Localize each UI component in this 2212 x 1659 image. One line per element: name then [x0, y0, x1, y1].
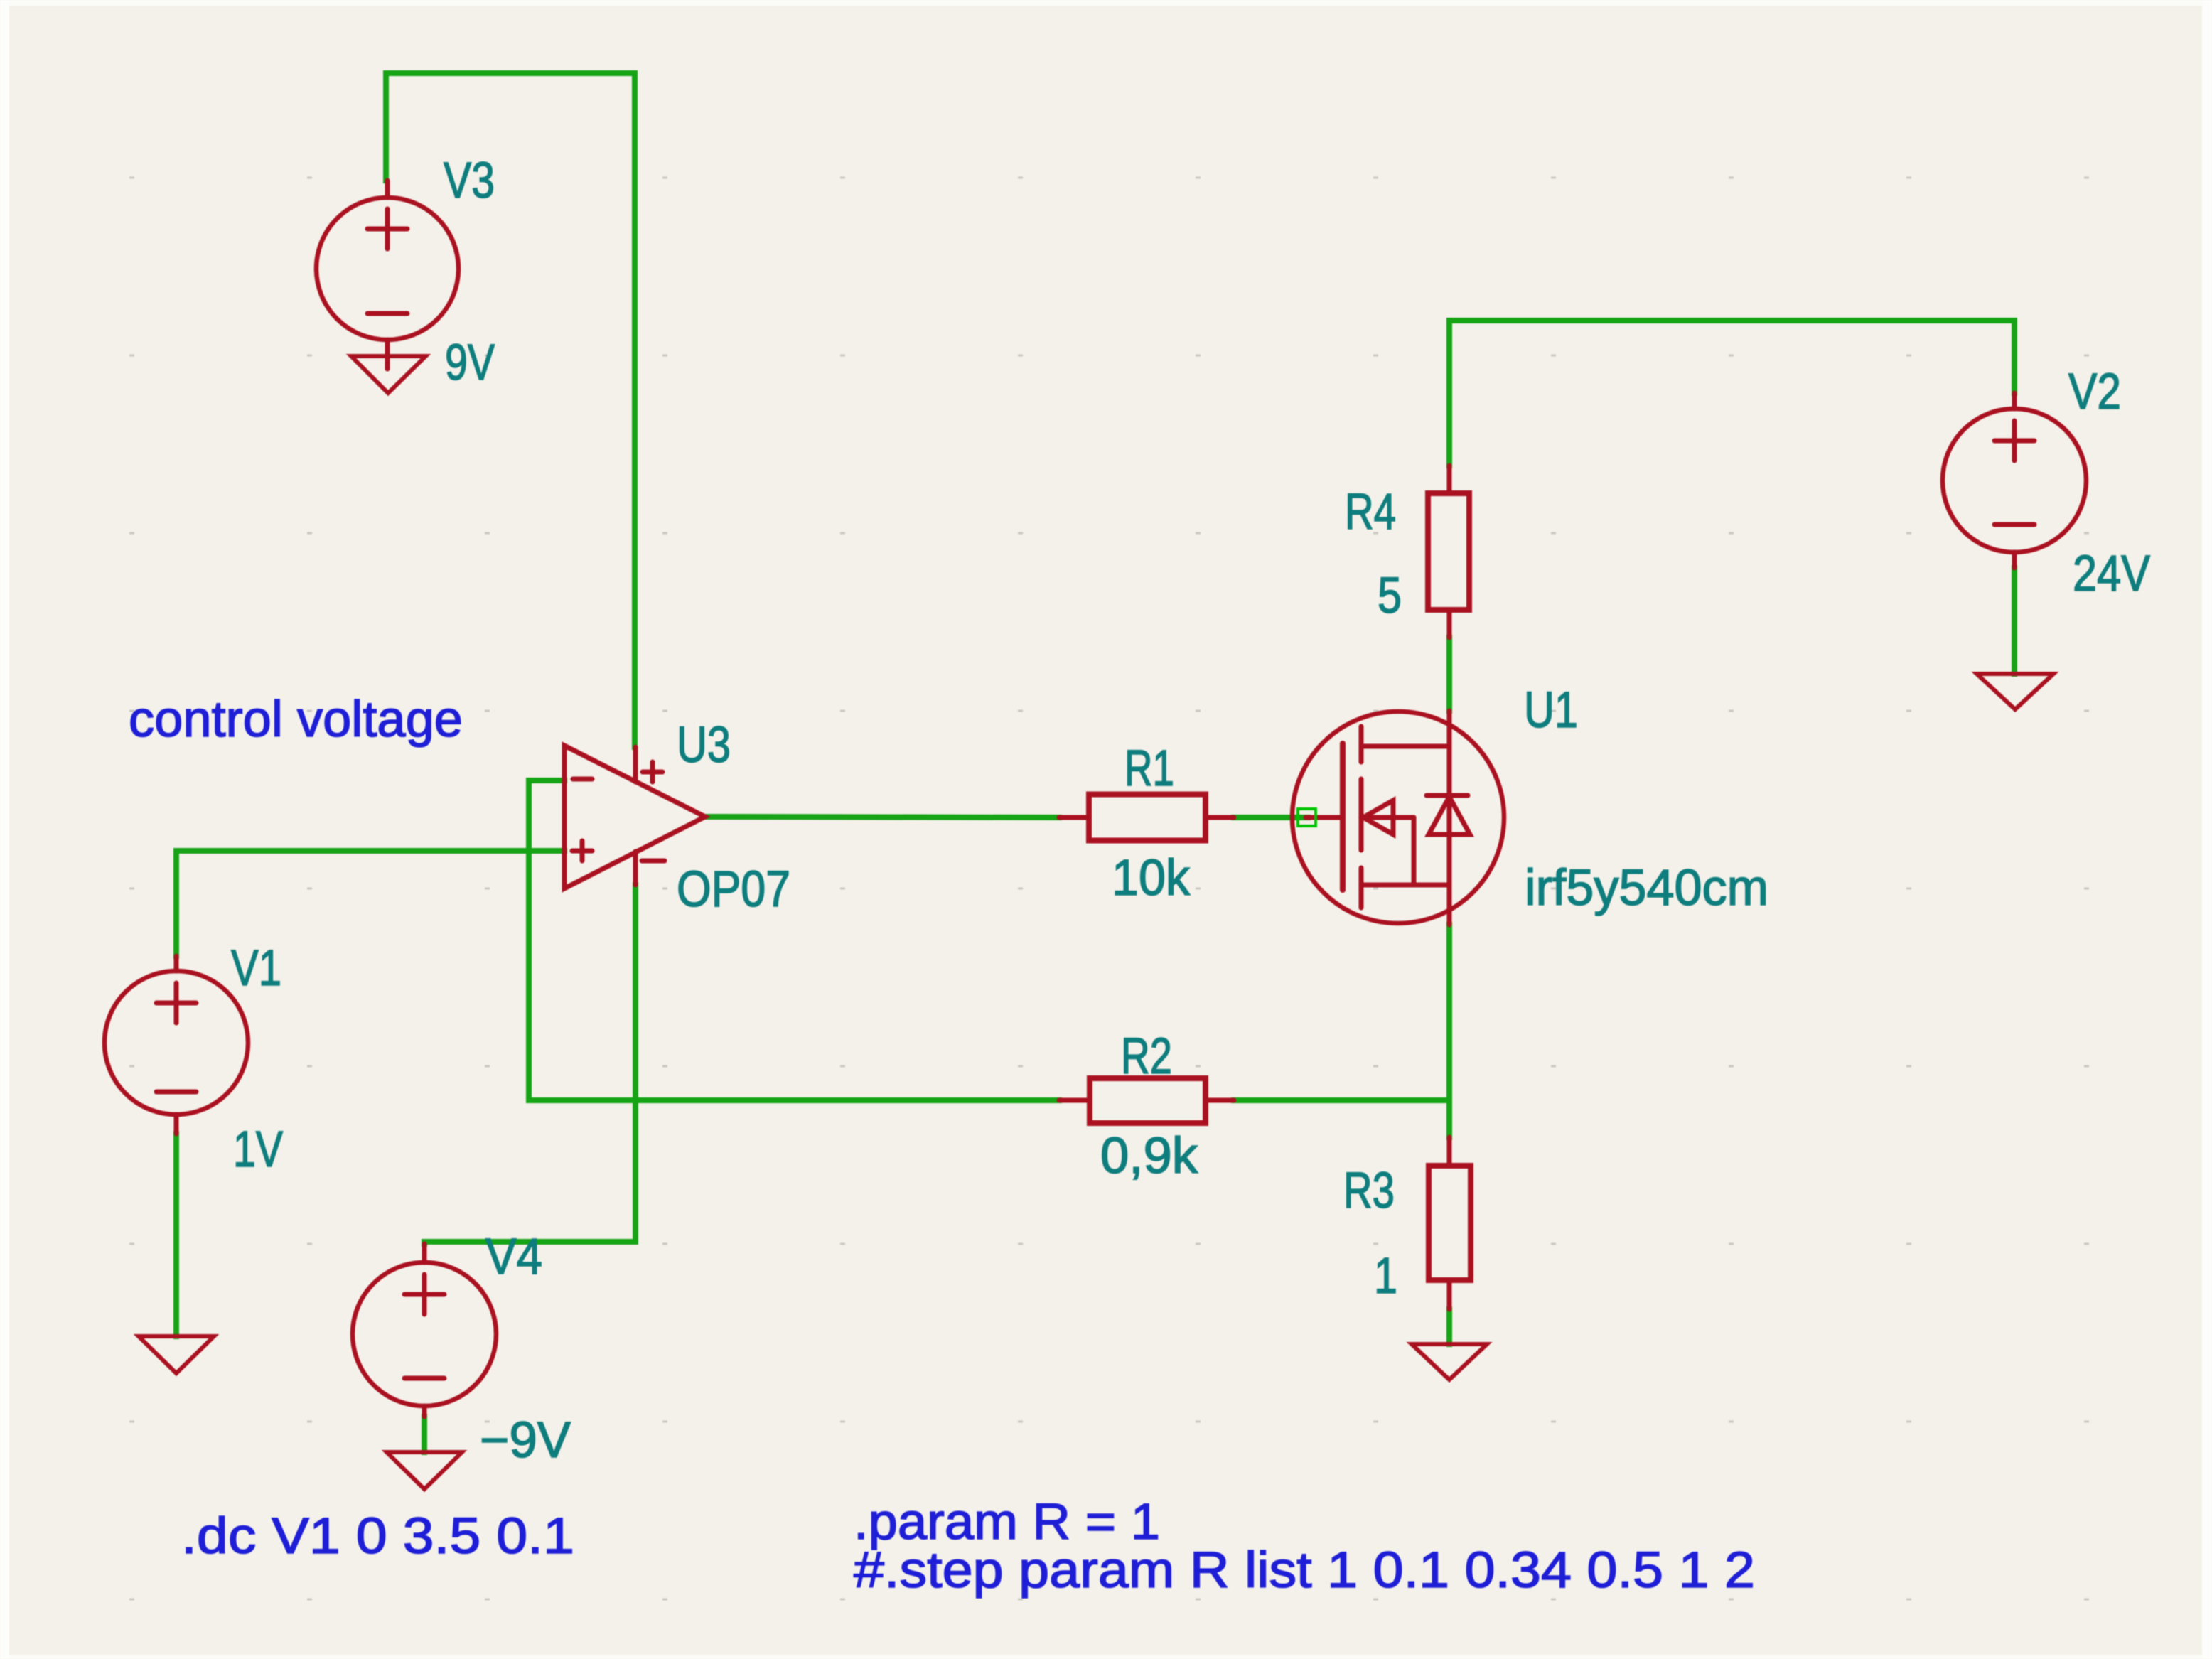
wire V1 bottom to ground	[173, 1134, 179, 1336]
svg-text:V4: V4	[485, 1229, 542, 1285]
resistor R2	[1059, 1078, 1234, 1123]
wire R4 bottom to drain	[1446, 638, 1452, 711]
voltage source V1	[104, 956, 248, 1134]
svg-text:R4: R4	[1345, 484, 1396, 540]
wire feedback to R2 left	[529, 1097, 1059, 1103]
pin end square	[1298, 809, 1316, 826]
ground V2	[1977, 674, 2053, 709]
svg-text:U3: U3	[677, 717, 731, 773]
svg-text:U1: U1	[1524, 682, 1578, 739]
svg-text:0,9k: 0,9k	[1100, 1128, 1198, 1184]
svg-text:24V: 24V	[2073, 546, 2151, 602]
wire R3 bottom to ground	[1446, 1309, 1452, 1344]
svg-text:10k: 10k	[1112, 850, 1190, 906]
transistor U1 MOSFET	[1292, 711, 1504, 925]
ground V4	[387, 1452, 462, 1489]
wire V4 bottom to ground	[422, 1417, 427, 1452]
voltage source V3	[316, 181, 458, 369]
voltage source V2	[1943, 393, 2086, 568]
wire opamp output to R1	[705, 817, 1059, 817]
svg-text:irf5y540cm: irf5y540cm	[1525, 860, 1768, 916]
ground R3	[1412, 1344, 1487, 1380]
ground V1	[139, 1336, 214, 1373]
svg-text:1V: 1V	[233, 1122, 284, 1178]
svg-text:9V: 9V	[445, 335, 495, 391]
resistor R1	[1059, 795, 1234, 841]
svg-text:−9V: −9V	[480, 1412, 571, 1469]
svg-text:control voltage: control voltage	[129, 692, 463, 748]
wire opamp V- down	[424, 885, 635, 1244]
wire opamp - input stub	[529, 780, 564, 1100]
resistor R3	[1429, 1137, 1471, 1309]
svg-text:.dc V1 0 3.5 0.1: .dc V1 0 3.5 0.1	[181, 1508, 574, 1564]
svg-text:R3: R3	[1343, 1163, 1395, 1219]
svg-text:V3: V3	[444, 153, 495, 209]
svg-text:R1: R1	[1124, 741, 1174, 797]
svg-text:OP07: OP07	[677, 861, 790, 918]
ground V3	[351, 356, 426, 393]
svg-text:R2: R2	[1121, 1029, 1172, 1085]
resistor R4	[1428, 466, 1469, 638]
wire V1 to opamp + input	[176, 851, 564, 956]
svg-text:5: 5	[1378, 568, 1402, 624]
svg-text:#.step param R list 1 0.1 0.34: #.step param R list 1 0.1 0.34 0.5 1 2	[854, 1542, 1755, 1599]
voltage source V4	[353, 1244, 496, 1417]
op-amp U3	[564, 746, 705, 888]
wire R4 top to V2	[1449, 321, 2014, 466]
svg-text:V1: V1	[231, 940, 281, 997]
wire source to R3	[1446, 925, 1452, 1137]
wire R1 to gate	[1234, 815, 1308, 820]
wire V2 bottom to ground	[2012, 568, 2017, 674]
wire top horizontal V3 to opamp V+	[386, 73, 635, 747]
svg-text:V2: V2	[2068, 364, 2121, 420]
wire R2 right to junction	[1234, 1097, 1449, 1103]
grid dots	[129, 177, 2089, 1601]
svg-text:1: 1	[1374, 1248, 1397, 1304]
